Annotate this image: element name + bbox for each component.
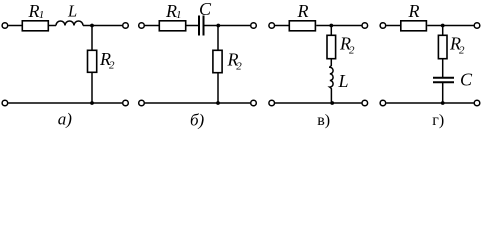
- svg-text:1: 1: [39, 9, 45, 21]
- svg-text:в): в): [317, 112, 330, 129]
- svg-text:а): а): [58, 109, 73, 128]
- svg-text:R: R: [297, 1, 309, 21]
- svg-text:2: 2: [349, 45, 355, 57]
- svg-text:г): г): [432, 112, 444, 129]
- svg-text:R: R: [28, 1, 40, 21]
- svg-text:C: C: [460, 70, 473, 90]
- svg-text:2: 2: [459, 45, 465, 57]
- svg-text:1: 1: [176, 9, 182, 21]
- svg-text:R: R: [408, 1, 420, 21]
- svg-text:б): б): [190, 110, 205, 129]
- svg-text:2: 2: [109, 59, 115, 71]
- svg-text:L: L: [338, 71, 349, 91]
- svg-text:L: L: [67, 2, 77, 21]
- svg-text:C: C: [199, 0, 212, 19]
- svg-text:2: 2: [236, 61, 242, 73]
